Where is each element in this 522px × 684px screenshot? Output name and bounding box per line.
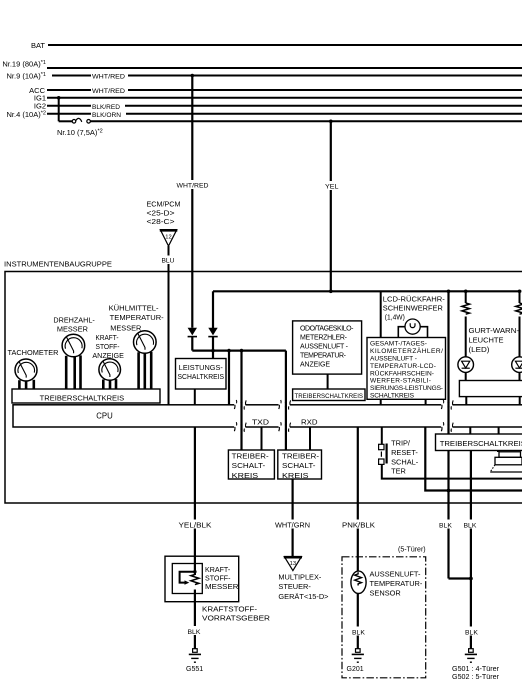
node Nr.19 (80A) fuse feed [2, 60, 46, 69]
svg-text:G501 : 4-Türer: G501 : 4-Türer [452, 666, 500, 673]
svg-text:G201: G201 [347, 666, 364, 673]
svg-text:AUSSENLUFT -: AUSSENLUFT - [300, 344, 349, 351]
wire supply bus to GESAMT box [380, 291, 382, 337]
wire D2 cathode into LEISTUNGS box [212, 337, 214, 359]
wire LED box leg right to CPU [519, 397, 521, 405]
svg-text:STOFF-: STOFF- [205, 574, 231, 582]
break at driver feed 1 crossing CPU bottom [234, 425, 245, 429]
label MULTIPLEX-STEUER-GERAET [278, 573, 328, 601]
svg-text:<25-D>: <25-D> [147, 211, 175, 218]
placeholder-mid2 [165, 400, 522, 681]
label YEL/BLK [177, 520, 212, 530]
svg-text:KILOMETERZÄHLER/: KILOMETERZÄHLER/ [370, 347, 443, 355]
svg-text:KRAFTSTOFF-: KRAFTSTOFF- [202, 605, 258, 614]
svg-text:DREHZAHL-: DREHZAHL- [53, 318, 95, 325]
wire TXD CPU to driver 1 [261, 427, 263, 450]
wire TRIP switch to right [382, 464, 522, 478]
fuel sender KRAFTSTOFF-VORRATSGEBER outer box [165, 556, 239, 602]
wire fuse line left segment [59, 120, 72, 122]
svg-text:VORRATSGEBER: VORRATSGEBER [202, 614, 270, 623]
label GURT-WARN-LEUCHTE (LED) [469, 326, 520, 354]
buzzer sounder [497, 451, 500, 453]
svg-text:BLK: BLK [439, 522, 452, 529]
resistor R2 [519, 291, 521, 303]
svg-text:YEL: YEL [325, 184, 339, 191]
svg-text:BLU: BLU [162, 258, 175, 265]
driver box 1 TREIBER-SCHALT-KREIS [228, 450, 274, 479]
svg-text:TER: TER [391, 467, 406, 476]
wire D1 cathode to diode bus [191, 337, 193, 351]
svg-text:SIERUNGS-LEISTUNGS-: SIERUNGS-LEISTUNGS- [370, 385, 443, 392]
svg-text:BLK/ORN: BLK/ORN [92, 112, 121, 119]
junction driver feed on diode bus [240, 349, 244, 353]
label KRAFTSTOFF-VORRATSGEBER [202, 605, 270, 623]
svg-text:SENSOR: SENSOR [370, 589, 401, 598]
LED 1 seat belt warning [458, 357, 474, 373]
LED 2 seat belt warning [512, 357, 522, 373]
label BLK above ground G201 [350, 627, 367, 637]
svg-text:MESSER: MESSER [205, 583, 239, 591]
svg-text:KREIS: KREIS [232, 471, 259, 480]
svg-text:GERÄT<15-D>: GERÄT<15-D> [278, 592, 328, 601]
svg-text:STEUER-: STEUER- [278, 582, 311, 591]
wire ACC bus WHT/RED [47, 89, 522, 91]
svg-text:TREIBER-: TREIBER- [232, 451, 270, 460]
wiper arm fuel sender [180, 572, 195, 583]
svg-text:MULTIPLEX-: MULTIPLEX- [278, 573, 322, 582]
svg-text:13: 13 [290, 561, 296, 567]
wire GESAMT box leg left to CPU [380, 399, 382, 405]
svg-text:WHT/RED: WHT/RED [177, 183, 209, 190]
break at driver feed 2 crossing CPU top [279, 403, 290, 407]
svg-text:(1,4W): (1,4W) [385, 315, 405, 322]
svg-text:ODO/TAGESKILO-: ODO/TAGESKILO- [300, 325, 354, 332]
svg-text:Nr.4 (10A)*2: Nr.4 (10A)*2 [7, 110, 46, 119]
wire BAT bus [48, 44, 522, 46]
svg-text:WERFER-STABILI-: WERFER-STABILI- [370, 378, 431, 385]
svg-text:TEMPERATUR-: TEMPERATUR- [110, 315, 165, 322]
resistor R1 [465, 291, 467, 303]
lamp label LCD-RUECKFAHR-SCHEINWERFER (1,4W) [383, 296, 446, 322]
break at seat belt line crossing CPU bottom [441, 425, 452, 429]
svg-text:LEISTUNGS-: LEISTUNGS- [179, 363, 223, 372]
svg-text:SCHALTKREIS: SCHALTKREIS [370, 393, 415, 400]
driver box right TREIBERSCHALTKREIS [436, 434, 522, 451]
svg-text:Nr.19 (80A)*1: Nr.19 (80A)*1 [2, 60, 46, 69]
wire internal supply bus YEL [213, 290, 521, 292]
wire GESAMT box leg right to CPU [425, 399, 427, 405]
node BAT [31, 41, 45, 50]
wire diode bus to driver circuit 1 (bypasses CPU) [240, 351, 242, 450]
svg-text:BLK/RED: BLK/RED [92, 104, 120, 111]
svg-text:TREIBERSCHALTKREIS: TREIBERSCHALTKREIS [440, 439, 522, 448]
svg-text:TREIBER-: TREIBER- [282, 451, 320, 460]
fuel gauge sender inner box [172, 564, 202, 594]
gauge M1 TACHOMETER [8, 350, 59, 357]
driver box 3 TREIBERSCHALTKREIS [293, 389, 365, 401]
wire YEL/BLK from CPU to fuel sender [194, 427, 196, 649]
svg-text:WHT/GRN: WHT/GRN [275, 522, 310, 529]
wire CPU leg to right driver box 1 [469, 427, 471, 434]
node IG1 [34, 94, 46, 103]
svg-text:BLK: BLK [465, 629, 478, 636]
seat belt LED circuit box [459, 381, 522, 397]
wire Nr.9 bus WHT/RED [52, 75, 522, 77]
svg-text:WHT/RED: WHT/RED [92, 88, 125, 95]
svg-text:TEMPERATUR-: TEMPERATUR- [370, 579, 423, 588]
diode D2 [208, 328, 217, 336]
svg-text:TREIBERSCHALTKREIS: TREIBERSCHALTKREIS [40, 395, 125, 402]
svg-text:LCD-RÜCKFAHR-: LCD-RÜCKFAHR- [383, 296, 446, 304]
option box 5-Tuerer dash-dot [342, 557, 426, 678]
wire Nr.19 bus [47, 67, 522, 69]
svg-text:YEL/BLK: YEL/BLK [179, 522, 212, 529]
wire CPU leg to right driver box 2 [498, 427, 500, 434]
svg-text:SCHALT-: SCHALT- [232, 461, 266, 470]
svg-text:SCHALTKREIS: SCHALTKREIS [178, 372, 225, 381]
wire diode bus to CPU top [228, 351, 230, 405]
wire BLU from ECM into cluster [168, 246, 170, 405]
bulb LCD backlight [398, 327, 405, 338]
break at driver feed 2 crossing CPU bottom [279, 425, 290, 429]
break at seat belt line crossing CPU top [441, 403, 452, 407]
break marks no-connection crossings [234, 400, 453, 432]
label AUSSENLUFT-TEMPERATUR-SENSOR [370, 569, 423, 597]
connector multiplex pin 13 [284, 557, 301, 571]
svg-text:KRAFT-: KRAFT- [96, 335, 120, 342]
svg-text:CPU: CPU [96, 411, 113, 420]
svg-text:BLK: BLK [188, 629, 201, 636]
svg-text:METERZHLER-: METERZHLER- [300, 334, 348, 341]
stabiliser box GESAMT-/TAGES-KILOMETERZAEHLER LCD power circuit [367, 338, 446, 400]
node TXD [252, 417, 269, 426]
svg-text:BLK: BLK [464, 522, 477, 529]
svg-text:Nr.9 (10A)*1: Nr.9 (10A)*1 [7, 72, 46, 81]
wire Nr.4 bus BLK/ORN [47, 113, 522, 115]
svg-text:AUSSENLUFT -: AUSSENLUFT - [370, 356, 417, 363]
label PNK/BLK [341, 520, 377, 530]
node ACC [29, 86, 45, 95]
node Nr.9 (10A) fuse feed [7, 72, 46, 81]
wire BLK from driver box down right [470, 451, 472, 649]
label BLK above ground G501 [464, 627, 481, 637]
wire LED box leg left to CPU [465, 397, 467, 405]
svg-text:KÜHLMITTEL-: KÜHLMITTEL- [109, 304, 160, 312]
wire IG1 bus [47, 97, 522, 99]
svg-text:RESET-: RESET- [391, 448, 418, 457]
svg-text:STOFF-: STOFF- [96, 344, 121, 351]
label BLK above ground G551 [186, 626, 203, 636]
svg-text:MESSER: MESSER [110, 326, 141, 333]
break at driver feed 1 crossing CPU top [234, 403, 245, 407]
wire through fuel sender [194, 556, 196, 575]
svg-text:TREIBERSCHALTKREIS: TREIBERSCHALTKREIS [295, 393, 364, 400]
svg-text:MESSER: MESSER [57, 327, 88, 334]
svg-text:TACHOMETER: TACHOMETER [8, 350, 59, 357]
svg-text:Nr.10 (7,5A)*2: Nr.10 (7,5A)*2 [57, 128, 103, 137]
svg-text:SCHEINWERFER: SCHEINWERFER [383, 306, 443, 313]
wire RXD CPU to driver 2 [309, 427, 311, 450]
label BLK right [462, 520, 483, 530]
wire IG1 down to fuse line [58, 98, 60, 122]
junction supply bus to seat belt lamp line [447, 290, 451, 294]
wire diode bus corner down to driver circuit 2 (bypasses CPU) [285, 351, 287, 450]
svg-text:TEMPERATUR-: TEMPERATUR- [300, 353, 347, 360]
svg-text:TRIP/: TRIP/ [391, 439, 411, 448]
diode D1 [188, 328, 197, 336]
svg-text:ANZEIGE: ANZEIGE [300, 362, 330, 369]
svg-text:AUSSENLUFT-: AUSSENLUFT- [370, 569, 421, 578]
label BLK left [437, 520, 458, 530]
wire IG2 bus BLK/RED [47, 105, 522, 107]
svg-text:INSTRUMENTENBAUGRUPPE: INSTRUMENTENBAUGRUPPE [4, 261, 112, 268]
svg-text:WHT/RED: WHT/RED [92, 74, 125, 81]
switch TRIP/RESET-SCHALTER [381, 427, 383, 444]
instrument cluster INSTRUMENTENBAUGRUPPE box [4, 261, 112, 268]
svg-text:RÜCKFAHRSCHEIN-: RÜCKFAHRSCHEIN- [370, 369, 434, 377]
wire LEISTUNGS box to CPU top [194, 389, 196, 405]
wire PNK/BLK from CPU to outside air sensor [357, 427, 359, 572]
wire fuse line to right edge [90, 120, 522, 122]
svg-text:GURT-WARN-: GURT-WARN- [469, 326, 520, 335]
svg-text:(5-Türer): (5-Türer) [398, 547, 426, 554]
svg-text:TEMPERATUR-LCD-: TEMPERATUR-LCD- [370, 363, 436, 370]
ground G551 [189, 649, 201, 663]
driver box 2 TREIBER-SCHALT-KREIS [278, 450, 322, 479]
wire WHT/GRN from driver 2 to multiplex unit [292, 479, 294, 557]
junction CPU feed on diode bus [227, 349, 231, 353]
connector ECM/PCM pin 12 [147, 202, 181, 227]
node RXD [301, 417, 318, 426]
wire YEL vertical drop [330, 121, 332, 291]
ground G201 [352, 649, 364, 663]
thermistor AUSSENLUFT-TEMPERATUR-SENSOR [351, 571, 366, 593]
wire BLK from driver box down left [447, 451, 449, 579]
junction IG1 to fuse Nr.10 [57, 96, 61, 100]
gauge M4 KUEHLMITTELTEMPERATURMESSER [109, 304, 165, 332]
svg-text:12: 12 [165, 235, 171, 241]
junction WHT/RED drop [191, 74, 195, 78]
svg-text:BLK: BLK [352, 629, 365, 636]
gauge M3 KRAFTSTOFFANZEIGE [92, 335, 124, 360]
svg-text:TXD: TXD [252, 417, 269, 426]
svg-text:SCHAL-: SCHAL- [391, 457, 419, 466]
junction BLK merge [469, 577, 473, 581]
display box ODO/TAGESKILOMETERZHLER-AUSSENLUFT-TEMPERATUR-ANZEIGE [293, 321, 362, 374]
svg-text:PNK/BLK: PNK/BLK [342, 522, 375, 529]
junction YEL drop [329, 120, 333, 124]
fuse Nr.10 (7,5A) [72, 120, 76, 124]
wire supply to diode D2 [212, 291, 214, 328]
variable resistor fuel sender [191, 575, 199, 585]
svg-text:ECM/PCM: ECM/PCM [147, 202, 181, 209]
svg-text:G502 : 5-Türer: G502 : 5-Türer [452, 674, 500, 681]
wire CPU output right via y490 [425, 427, 522, 491]
svg-text:<28-C>: <28-C> [147, 219, 175, 226]
junction BLK line on y490 wire [447, 489, 451, 493]
wire diode output bus [192, 350, 286, 352]
svg-text:SCHALT-: SCHALT- [282, 461, 316, 470]
ground G501/G502 [465, 649, 477, 663]
node IG2 [34, 102, 46, 111]
svg-text:LEUCHTE: LEUCHTE [469, 335, 504, 344]
svg-text:GESAMT-/TAGES-: GESAMT-/TAGES- [370, 341, 427, 348]
wire supply line through CPU to right driver box [447, 291, 449, 434]
svg-text:BAT: BAT [31, 41, 45, 50]
svg-text:KRAFT-: KRAFT- [205, 566, 231, 574]
junction D2 line on diode bus [211, 349, 215, 353]
svg-text:(LED): (LED) [469, 345, 490, 354]
label KRAFT-STOFF-MESSER [205, 566, 239, 591]
svg-text:G551: G551 [186, 666, 203, 673]
svg-text:RXD: RXD [301, 417, 318, 426]
label (5-Tuerer) [398, 547, 426, 554]
wire jog joining BLK lines [449, 577, 471, 579]
CPU box [13, 405, 522, 427]
svg-text:KREIS: KREIS [282, 471, 309, 480]
power circuit box LEISTUNGS-SCHALTKREIS [176, 359, 227, 390]
node Nr.4 (10A) fuse feed [7, 110, 46, 119]
wire WHT/RED vertical drop [191, 76, 193, 328]
gauge M2 DREHZAHLMESSER [53, 318, 95, 334]
wire ODO display to driver 3 [327, 374, 329, 389]
label WHT/GRN [274, 520, 312, 530]
gauge driver box TREIBERSCHALTKREIS [12, 389, 160, 403]
